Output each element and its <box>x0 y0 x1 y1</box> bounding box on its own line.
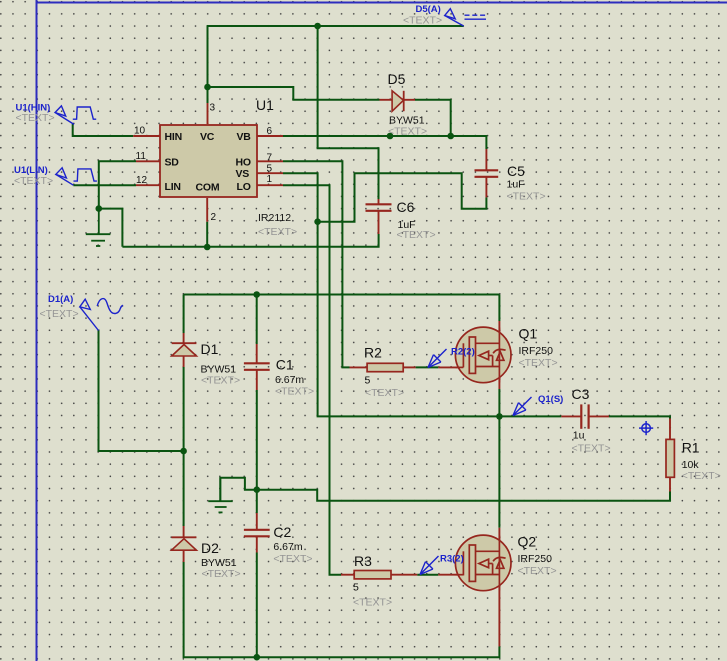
svg-text:<TEXT>: <TEXT> <box>201 375 240 387</box>
pin 3 stub U1 <box>207 103 209 124</box>
svg-text:5: 5 <box>365 375 371 387</box>
D2 reference label <box>201 540 219 556</box>
D5 reference label <box>388 71 406 87</box>
wire VC net: pin3 up to top rail <box>207 26 209 103</box>
wire D1(A) input <box>99 330 183 452</box>
svg-text:IR2112: IR2112 <box>258 212 291 224</box>
R3 TEXT placeholder <box>353 597 392 609</box>
transistor Q2 (IRF250 MOSFET) <box>455 535 511 591</box>
wire P rail: D1 top stub <box>183 295 185 334</box>
junction VC net on top rail <box>314 23 321 30</box>
junction mid ground node C1/C2 <box>253 486 260 493</box>
U1(HIN) TEXT placeholder <box>16 112 55 124</box>
resistor R1 <box>666 439 674 477</box>
R3 reference label <box>354 553 372 569</box>
U1 pin names <box>165 131 252 194</box>
wire mid diode node down to D2 cathode <box>183 451 185 526</box>
pin 6 stub U1 <box>257 135 283 137</box>
svg-text:VB: VB <box>237 131 252 143</box>
D5(A) TEXT placeholder <box>403 15 442 27</box>
svg-text:5: 5 <box>353 582 359 594</box>
svg-text:R1: R1 <box>682 440 700 456</box>
resistor R3 <box>354 571 391 579</box>
wire LIN input <box>73 184 136 186</box>
junction node A (D1 anode / D2 cathode / D1(A) input) <box>180 448 187 455</box>
C6 TEXT placeholder <box>397 229 436 241</box>
U1(LIN) TEXT placeholder <box>14 175 53 187</box>
svg-text:SD: SD <box>165 156 180 168</box>
R2 reference label <box>364 345 382 361</box>
C3 value 1u <box>573 429 585 441</box>
origin marker <box>639 421 653 435</box>
svg-text:<TEXT>: <TEXT> <box>682 470 721 482</box>
pin stub Q2 drain-source <box>498 528 500 647</box>
svg-text:6.67m: 6.67m <box>273 541 302 553</box>
svg-text:<TEXT>: <TEXT> <box>397 229 436 241</box>
junction VS net jog <box>314 218 321 225</box>
svg-text:11: 11 <box>136 151 147 162</box>
junction bottom rail at C2 <box>253 654 260 661</box>
pin stubs R2 <box>350 366 416 368</box>
pin stubs C5 <box>485 149 487 197</box>
ground symbol G1 (near U1) <box>86 209 111 246</box>
wire VS net: chip VS jog to C5 bottom <box>283 173 486 222</box>
svg-text:10: 10 <box>134 126 146 137</box>
C3 reference label <box>572 386 590 402</box>
svg-text:D1: D1 <box>201 341 219 357</box>
pin 12 stub U1 <box>136 184 160 186</box>
D1 value BYW51 <box>201 364 237 376</box>
C2 TEXT placeholder <box>273 553 312 565</box>
pin stubs R1 <box>669 419 671 492</box>
svg-text:HO: HO <box>236 156 251 168</box>
pin stubs D5 <box>380 99 416 101</box>
svg-text:<TEXT>: <TEXT> <box>519 357 558 369</box>
C5 reference label <box>507 163 525 179</box>
wire P rail: C1 top stub <box>256 295 258 345</box>
wire COM net: pin2 down to rail <box>206 222 208 247</box>
Q2 value IRF250 <box>518 553 553 565</box>
C1 reference label <box>276 356 294 372</box>
wire HO net: R2 to Q1 gate <box>416 366 439 368</box>
wire mid node jog to ground G2 <box>220 478 256 501</box>
voltage probe R3(2) <box>420 554 464 575</box>
svg-text:R3: R3 <box>354 553 372 569</box>
pin stubs C6 <box>378 199 380 234</box>
wire load net: C3 right to R1 top <box>609 416 670 418</box>
generator D5(A) <box>445 9 486 26</box>
junction VC net at pin3 riser <box>204 84 211 91</box>
wire LO net: chip LO down to R3 <box>283 185 341 575</box>
svg-text:7: 7 <box>267 152 273 163</box>
D5 TEXT placeholder <box>388 126 427 138</box>
diode D2 <box>172 537 197 550</box>
svg-text:Q1: Q1 <box>519 326 538 342</box>
C6 value 1uF <box>398 219 416 231</box>
junction COM rail at pin2 <box>204 244 211 251</box>
wire P rail: D1/C1 top to Q1 drain <box>184 294 500 296</box>
svg-text:<TEXT>: <TEXT> <box>403 15 442 27</box>
D5(A) net label <box>416 4 441 15</box>
svg-text:LIN: LIN <box>165 181 181 193</box>
C2 value 6.67m <box>273 541 302 553</box>
svg-text:<TEXT>: <TEXT> <box>40 308 79 320</box>
wire LO net: R3 to Q2 gate <box>417 574 438 576</box>
U1(HIN) net label <box>16 103 51 114</box>
svg-text:C2: C2 <box>273 524 291 540</box>
IC U1 IR2112 gate-driver body <box>160 125 257 197</box>
junction node Q1 source / Q2 drain / VS / C3 <box>496 413 503 420</box>
svg-text:C5: C5 <box>507 163 525 179</box>
C1 value 6.67m <box>275 374 304 386</box>
transistor Q1 (IRF250 MOSFET) <box>455 327 511 383</box>
wire VC net: drop to C6 top <box>318 26 379 199</box>
svg-text:1uF: 1uF <box>507 179 525 191</box>
svg-text:R2(2): R2(2) <box>451 347 475 358</box>
pin stubs D1 <box>183 333 185 367</box>
svg-text:U1: U1 <box>256 97 274 113</box>
R1 TEXT placeholder <box>682 470 721 482</box>
C6 reference label <box>397 199 415 215</box>
junction SD/ground node <box>96 205 103 212</box>
svg-text:HIN: HIN <box>165 131 182 143</box>
wire COM net: ground rail <box>122 234 378 247</box>
svg-text:COM: COM <box>196 182 220 194</box>
svg-text:<TEXT>: <TEXT> <box>14 175 53 187</box>
pin 7 stub U1 <box>257 160 283 162</box>
Q1 TEXT placeholder <box>519 357 558 369</box>
R1 value 10k <box>682 459 700 471</box>
wire VS net: Q2 drain stub <box>498 416 500 527</box>
wire HO net: chip HO down to R2 <box>283 161 350 367</box>
generator U1(HIN) <box>55 106 96 125</box>
svg-text:Q1(S): Q1(S) <box>538 394 563 405</box>
pin stub Q2 gate <box>438 574 463 576</box>
generator U1(LIN) <box>56 168 97 185</box>
wire N rail: C2 bottom stub <box>256 553 258 658</box>
diode D5 <box>392 91 404 111</box>
diode D1 <box>172 343 197 356</box>
D1(A) net label <box>48 294 73 305</box>
capacitor C5 <box>475 170 499 177</box>
svg-text:R3(2): R3(2) <box>440 554 464 565</box>
wire HIN input <box>73 124 134 136</box>
Q2 reference label <box>518 534 537 550</box>
capacitor C1 <box>244 363 270 370</box>
wire VC net: jog to D5 anode <box>208 87 380 100</box>
D1(A) TEXT placeholder <box>40 308 79 320</box>
pin stub Q1 gate <box>438 366 463 368</box>
svg-text:D5: D5 <box>388 71 406 87</box>
wire P rail: Q1 drain stub <box>498 295 500 322</box>
junction VB net at D5 cathode drop <box>447 133 454 140</box>
wire mid node to C2 top <box>256 490 258 513</box>
svg-text:<TEXT>: <TEXT> <box>273 553 312 565</box>
ground symbol G2 (mid rail) <box>208 478 232 513</box>
D5 value BYW51 <box>389 115 425 127</box>
svg-text:<TEXT>: <TEXT> <box>365 387 404 399</box>
pin stubs C3 <box>561 415 609 417</box>
wire D1 anode to mid diode node <box>183 367 185 451</box>
wire N rail: D2 anode down and along bottom <box>184 562 500 657</box>
U1(LIN) net label <box>14 165 48 176</box>
U1 pin numbers <box>134 103 273 224</box>
C5 value 1uF <box>507 179 525 191</box>
junction VB net left <box>387 133 394 140</box>
svg-text:<TEXT>: <TEXT> <box>353 597 392 609</box>
svg-text:6.67m: 6.67m <box>275 374 304 386</box>
C3 TEXT placeholder <box>572 443 611 455</box>
Q1 value IRF250 <box>519 345 554 357</box>
wire VS net: source node to C3 <box>499 415 561 417</box>
wire C1 bottom to mid node <box>256 390 258 490</box>
resistor R2 <box>367 363 403 371</box>
R3 value 5 <box>353 582 359 594</box>
pin 2 stub U1 <box>206 198 208 222</box>
junction P rail at C1 top <box>253 291 260 298</box>
svg-text:<TEXT>: <TEXT> <box>572 443 611 455</box>
wire mid node to R1 bottom rail <box>257 490 670 501</box>
pin 11 stub U1 <box>136 160 160 162</box>
pin 1 stub U1 <box>257 184 283 186</box>
svg-text:R2: R2 <box>364 345 382 361</box>
R1 reference label <box>682 440 700 456</box>
svg-text:<TEXT>: <TEXT> <box>202 568 241 580</box>
Q2 TEXT placeholder <box>518 565 557 577</box>
svg-text:IRF250: IRF250 <box>518 553 553 565</box>
svg-text:3: 3 <box>210 103 216 114</box>
R2 value 5 <box>365 375 371 387</box>
svg-text:D2: D2 <box>201 540 219 556</box>
svg-text:D1(A): D1(A) <box>48 294 73 305</box>
wire SD net: chip SD to ground node <box>99 161 136 209</box>
C2 reference label <box>273 524 291 540</box>
D2 value BYW51 <box>201 557 237 569</box>
svg-text:C3: C3 <box>572 386 590 402</box>
pin stubs R3 <box>341 574 417 576</box>
U1 reference label <box>256 97 274 113</box>
svg-text:IRF250: IRF250 <box>519 345 554 357</box>
svg-text:<TEXT>: <TEXT> <box>388 126 427 138</box>
U1 value label IR2112 <box>258 212 291 224</box>
svg-text:<TEXT>: <TEXT> <box>258 226 297 238</box>
svg-text:1: 1 <box>267 174 273 185</box>
pin stubs D2 <box>183 526 185 562</box>
svg-text:6: 6 <box>267 126 273 137</box>
svg-text:D5(A): D5(A) <box>416 4 441 15</box>
generator D1(A) <box>80 299 123 331</box>
svg-text:VS: VS <box>236 168 250 180</box>
svg-text:C1: C1 <box>276 356 294 372</box>
voltage probe Q1(S) <box>513 394 563 416</box>
svg-text:2: 2 <box>211 212 217 223</box>
svg-text:<TEXT>: <TEXT> <box>518 565 557 577</box>
Q1 reference label <box>519 326 538 342</box>
D1 TEXT placeholder <box>201 375 240 387</box>
svg-text:Q2: Q2 <box>518 534 537 550</box>
wire VB net: D5 cathode to VB rail <box>415 100 451 136</box>
svg-text:<TEXT>: <TEXT> <box>275 386 314 398</box>
pin 5 stub U1 <box>257 172 283 174</box>
wire VS net: Q1 source stub <box>498 389 500 416</box>
U1 TEXT placeholder <box>258 226 297 238</box>
wire VS net: down to Q1 source node <box>318 222 500 417</box>
D2 TEXT placeholder <box>202 568 241 580</box>
svg-text:5: 5 <box>267 164 273 175</box>
pin 10 stub U1 <box>133 135 160 137</box>
svg-text:LO: LO <box>237 181 251 193</box>
wire VC net: top rail to D5(A) generator <box>207 25 464 27</box>
svg-text:1u: 1u <box>573 429 585 441</box>
svg-text:C6: C6 <box>397 199 415 215</box>
svg-text:12: 12 <box>136 175 148 186</box>
capacitor C3 <box>581 404 588 428</box>
svg-text:<TEXT>: <TEXT> <box>16 112 55 124</box>
pin stub Q1 drain-source <box>498 321 500 389</box>
D1 reference label <box>201 341 219 357</box>
svg-text:<TEXT>: <TEXT> <box>507 191 546 203</box>
svg-text:VC: VC <box>200 131 215 143</box>
C5 TEXT placeholder <box>507 191 546 203</box>
C1 TEXT placeholder <box>275 386 314 398</box>
pin stubs C1 <box>256 344 258 390</box>
R2 TEXT placeholder <box>365 387 404 399</box>
voltage probe R2(2) <box>428 347 475 368</box>
wire COM net: ground jog <box>99 209 123 247</box>
capacitor C6 <box>366 204 392 211</box>
wire VB net: chip VB to C5 top <box>283 136 486 149</box>
capacitor C2 <box>244 530 270 537</box>
pin stubs C2 <box>256 513 258 553</box>
